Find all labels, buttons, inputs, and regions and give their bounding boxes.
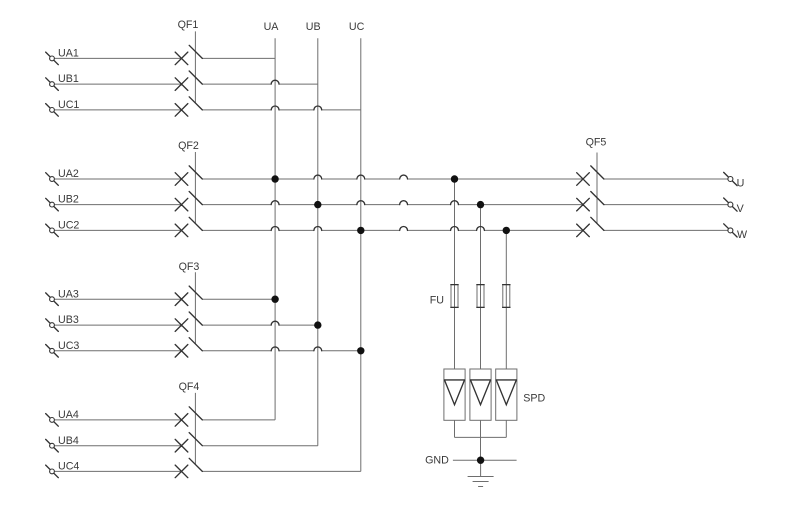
svg-text:UB1: UB1 — [58, 73, 79, 85]
svg-text:UC: UC — [349, 21, 365, 33]
svg-text:UC1: UC1 — [58, 99, 79, 111]
svg-text:U: U — [737, 178, 745, 190]
svg-text:UB2: UB2 — [58, 194, 79, 206]
svg-text:UC2: UC2 — [58, 220, 79, 232]
svg-text:UB4: UB4 — [58, 435, 79, 447]
svg-text:QF3: QF3 — [179, 261, 200, 273]
svg-text:GND: GND — [425, 455, 449, 467]
svg-text:UC3: UC3 — [58, 340, 79, 352]
svg-text:UC4: UC4 — [58, 461, 79, 473]
svg-text:V: V — [737, 203, 745, 215]
svg-text:QF4: QF4 — [179, 381, 200, 393]
svg-text:UB: UB — [306, 21, 321, 33]
svg-text:UA2: UA2 — [58, 168, 79, 180]
svg-text:UB3: UB3 — [58, 314, 79, 326]
svg-text:SPD: SPD — [523, 393, 545, 405]
svg-text:UA3: UA3 — [58, 288, 79, 300]
svg-text:QF5: QF5 — [586, 137, 607, 149]
svg-text:QF1: QF1 — [178, 19, 199, 31]
svg-text:W: W — [737, 229, 748, 241]
svg-text:UA: UA — [264, 21, 280, 33]
svg-text:UA4: UA4 — [58, 409, 79, 421]
svg-text:QF2: QF2 — [178, 140, 199, 152]
svg-text:UA1: UA1 — [58, 48, 79, 60]
svg-text:FU: FU — [430, 295, 444, 307]
